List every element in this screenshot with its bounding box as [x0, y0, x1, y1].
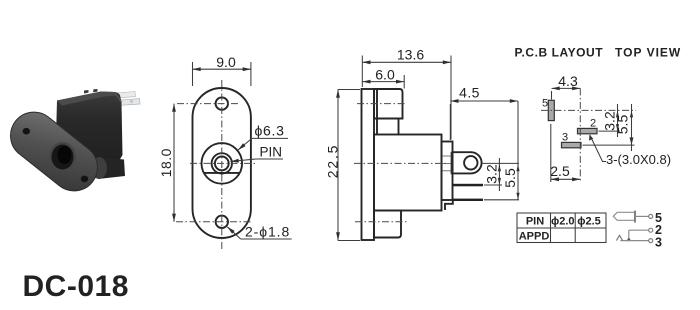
svg-text:P.C.B LAYOUT: P.C.B LAYOUT: [515, 46, 604, 60]
svg-text:2-ϕ1.8: 2-ϕ1.8: [245, 224, 290, 240]
svg-text:3.2: 3.2: [484, 164, 500, 184]
svg-text:DC-018: DC-018: [23, 270, 129, 303]
svg-text:4.5: 4.5: [459, 85, 480, 101]
svg-text:4.3: 4.3: [558, 73, 578, 89]
svg-text:PIN: PIN: [526, 215, 544, 227]
svg-text:PIN: PIN: [260, 145, 283, 160]
svg-text:ϕ6.3: ϕ6.3: [255, 123, 285, 139]
svg-text:ϕ2.0: ϕ2.0: [551, 215, 575, 227]
svg-text:APPD: APPD: [519, 230, 550, 242]
svg-text:5.5: 5.5: [502, 168, 518, 188]
svg-text:18.0: 18.0: [158, 148, 174, 177]
svg-text:ϕ2.5: ϕ2.5: [577, 215, 601, 227]
svg-text:3: 3: [655, 236, 662, 250]
svg-text:6.0: 6.0: [375, 67, 395, 83]
svg-text:TOP VIEW: TOP VIEW: [615, 46, 681, 60]
svg-text:3-(3.0X0.8): 3-(3.0X0.8): [606, 152, 671, 167]
svg-text:2: 2: [590, 118, 596, 130]
svg-text:2.5: 2.5: [550, 163, 570, 179]
svg-text:22.5: 22.5: [325, 144, 341, 178]
svg-text:5.5: 5.5: [615, 115, 631, 135]
svg-text:13.6: 13.6: [397, 47, 424, 63]
svg-text:3: 3: [562, 132, 568, 144]
svg-text:5: 5: [542, 98, 548, 110]
svg-text:9.0: 9.0: [216, 54, 236, 70]
